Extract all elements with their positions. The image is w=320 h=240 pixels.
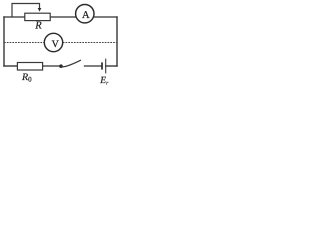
resistor R body bbox=[25, 13, 50, 20]
voltmeter V bbox=[44, 33, 62, 51]
svg-text:A: A bbox=[82, 10, 90, 21]
resistor R0 body bbox=[17, 63, 42, 71]
wire right vertical bbox=[116, 17, 118, 66]
battery positive plate (long) bbox=[105, 59, 107, 74]
wire top-left segment bbox=[4, 16, 25, 18]
ammeter A bbox=[76, 5, 94, 23]
wire voltmeter row (dashed) bbox=[4, 42, 117, 44]
wire battery to bottom-right corner bbox=[106, 65, 117, 67]
wire R to ammeter bbox=[50, 16, 76, 18]
wire bottom-left segment bbox=[4, 65, 17, 67]
rheostat R slider loop bbox=[12, 4, 40, 18]
svg-text:R: R bbox=[34, 21, 42, 32]
switch junction dot bbox=[59, 64, 63, 68]
wire ammeter to top-right corner bbox=[93, 16, 117, 18]
wire left vertical bbox=[3, 17, 5, 66]
rheostat R slider arrowhead bbox=[38, 8, 42, 12]
switch lever bbox=[61, 60, 81, 67]
wire switch to battery bbox=[85, 65, 103, 67]
battery negative plate (short) bbox=[101, 62, 103, 69]
svg-text:V: V bbox=[52, 39, 60, 50]
wire R0 to switch junction bbox=[43, 65, 61, 67]
